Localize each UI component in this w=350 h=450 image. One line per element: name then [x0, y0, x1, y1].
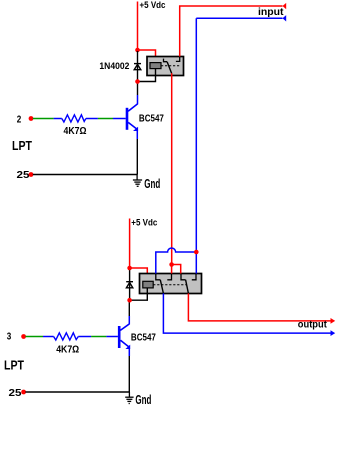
relay K2 coil [143, 281, 153, 288]
wire Q1 emitter down [136, 131, 138, 175]
wire +5V vertical (bottom) [129, 219, 131, 269]
svg-text:LPT: LPT [12, 139, 32, 153]
svg-text:Gnd: Gnd [135, 393, 151, 407]
diode D1 1N4002 [134, 64, 141, 70]
ground symbol (bottom) [125, 392, 133, 404]
port arrow output blue [331, 330, 336, 336]
svg-text:4K7Ω: 4K7Ω [64, 126, 87, 137]
wire pin3 to R2 (green/blue) [25, 336, 53, 338]
node pin3 dot [21, 334, 26, 339]
port arrow input blue [283, 15, 287, 21]
relay K2 switch1 left contact [156, 274, 161, 280]
svg-text:25: 25 [17, 169, 30, 181]
svg-text:BC547: BC547 [131, 332, 156, 343]
relay K1 right contact [176, 57, 180, 62]
svg-text:+5 Vdc: +5 Vdc [140, 0, 166, 10]
wire pin25 to ground (bottom) [25, 391, 129, 393]
wire K1 contact to input (red) [180, 6, 283, 57]
svg-text:output: output [298, 320, 328, 331]
resistor R2 4K7 [54, 333, 79, 340]
relay K2 switch2 right contact [192, 274, 196, 280]
relay K1 coil [150, 63, 161, 69]
svg-text:input: input [258, 7, 284, 18]
wire R2 to Q2 base [78, 336, 108, 338]
relay K2 body [140, 274, 202, 294]
junction dot input node [194, 250, 199, 255]
junction dot relay node [169, 262, 174, 267]
relay K2 switch2 left contact [181, 274, 186, 280]
wire blue hop over red [156, 248, 197, 274]
wire +5V to coil K2 [130, 268, 148, 281]
junction dot top B [135, 79, 140, 84]
relay K1 switch arm [167, 62, 172, 74]
svg-text:4K7Ω: 4K7Ω [56, 344, 79, 355]
wire K1 arm down to node (red) [171, 73, 173, 264]
wire input blue vertical [195, 18, 197, 252]
wire K1 coil bottom to node B [138, 69, 156, 82]
svg-text:25: 25 [9, 387, 22, 399]
port arrow output red [331, 318, 336, 324]
wire node B to Q2 collector [128, 300, 130, 324]
relay K1 coil link dashed [161, 65, 181, 67]
wire node B to Q1 collector [137, 83, 139, 104]
transistor Q2 emitter arrow [125, 345, 130, 349]
transistor Q1 emitter arrow [133, 127, 138, 131]
svg-text:1N4002: 1N4002 [99, 61, 129, 71]
junction dot top A [135, 48, 140, 53]
wire input blue horizontal [196, 17, 282, 19]
transistor Q1 BC547 [113, 104, 138, 130]
relay K1 left contact [164, 59, 168, 62]
svg-text:BC547: BC547 [139, 114, 164, 125]
node pin25 dot (top) [29, 172, 34, 177]
node pin25 dot (bottom) [21, 390, 26, 395]
wire node to K2 pins (red) [172, 265, 181, 274]
svg-text:+5 Vdc: +5 Vdc [131, 218, 157, 228]
relay K2 switch1 right contact [167, 274, 171, 280]
wire pin2 to R1 (green/blue) [33, 118, 62, 120]
wire +5V vertical (top) [137, 2, 139, 51]
svg-text:2: 2 [17, 114, 22, 125]
node pin2 dot [29, 116, 34, 121]
wire pin25 to ground (top) [33, 174, 138, 176]
wire R1 to Q1 base [86, 118, 113, 120]
relay K2 switch2 arm [186, 280, 189, 294]
diode D2 [126, 282, 133, 288]
resistor R1 4K7 [62, 115, 86, 122]
port arrow input red [283, 3, 287, 9]
wire +5V to coil K1 [138, 50, 156, 63]
svg-text:LPT: LPT [4, 358, 24, 372]
wire Q2 emitter down [128, 349, 130, 393]
relay K2 coil link dashed [153, 284, 186, 286]
junction dot bottom B [127, 298, 132, 303]
wire diode D2 leads [129, 269, 131, 299]
relay K1 body [147, 57, 184, 76]
relay K2 switch1 arm [160, 280, 163, 294]
svg-text:Gnd: Gnd [144, 177, 160, 191]
wire K2 switch2 to output (red) [188, 293, 330, 321]
wire diode D1 leads [137, 51, 139, 80]
junction dot bottom A [127, 266, 132, 271]
transistor Q2 BC547 [108, 324, 129, 348]
wire K2 switch1 to output (blue) [163, 293, 330, 333]
svg-text:3: 3 [7, 332, 12, 343]
wire K2 coil bottom to node B [130, 288, 148, 300]
ground symbol (top) [133, 175, 142, 187]
